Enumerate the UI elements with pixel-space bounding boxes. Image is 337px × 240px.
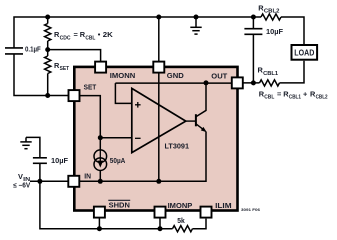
svg-text:CBL: CBL	[264, 95, 275, 101]
svg-text:IN: IN	[84, 171, 91, 180]
svg-text:CBL: CBL	[85, 35, 96, 41]
svg-text:3091 F06: 3091 F06	[241, 207, 261, 212]
svg-text:CBL1: CBL1	[263, 71, 278, 77]
svg-text:CBL2: CBL2	[316, 95, 328, 101]
svg-text:OUT: OUT	[211, 72, 227, 81]
svg-text:SHDN: SHDN	[109, 201, 130, 210]
svg-text:10µF: 10µF	[266, 27, 283, 36]
svg-text:=: =	[74, 30, 79, 39]
svg-text:IMONN: IMONN	[110, 71, 136, 80]
svg-text:CBL1: CBL1	[289, 95, 301, 101]
svg-text:SET: SET	[60, 66, 70, 72]
svg-text:10µF: 10µF	[51, 156, 68, 165]
svg-text:LT3091: LT3091	[165, 141, 190, 150]
svg-text:5k: 5k	[177, 216, 185, 225]
svg-text:CBL2: CBL2	[264, 9, 280, 15]
svg-text:GND: GND	[167, 71, 185, 80]
svg-text:IMONP: IMONP	[168, 201, 193, 210]
svg-text:=: =	[277, 89, 282, 98]
svg-text:LOAD: LOAD	[294, 48, 314, 57]
svg-text:SET: SET	[84, 82, 97, 91]
svg-text:50µA: 50µA	[110, 156, 126, 165]
svg-text:ILIM: ILIM	[215, 201, 232, 210]
svg-text:≤ –6V: ≤ –6V	[13, 183, 30, 190]
svg-text:•: •	[98, 30, 101, 39]
svg-text:2K: 2K	[103, 30, 114, 39]
svg-text:+: +	[303, 89, 308, 98]
svg-text:CDC: CDC	[60, 35, 71, 41]
svg-text:0.1µF: 0.1µF	[25, 45, 41, 54]
